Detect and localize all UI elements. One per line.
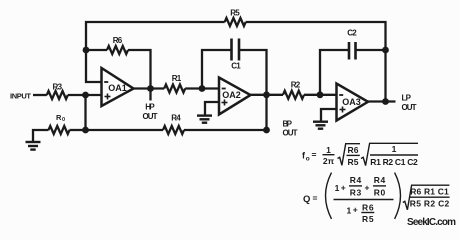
svg-text:2π: 2π [323,156,335,166]
resistor R5 [225,18,246,26]
svg-text:1: 1 [392,144,397,154]
wire: R0 left lead and drop to ground [33,130,49,141]
node: OA2 inverting input junction [199,85,206,92]
svg-text:OUT: OUT [402,103,417,112]
svg-text:OUT: OUT [283,128,298,137]
node: BP output / OA2 output [263,91,270,98]
svg-text:R4: R4 [171,114,181,123]
svg-text:OUT: OUT [143,112,158,121]
wire: OA3 non-inverting input to ground [321,109,337,121]
resistor R4 [163,126,184,134]
op-amp OA1 [102,68,134,106]
wire: R2 to OA3 inverting input [304,94,337,96]
svg-text:R2: R2 [291,80,301,89]
svg-text:SeekIC.com: SeekIC.com [407,217,456,228]
svg-text:R5: R5 [230,9,240,18]
node: R6 tap on feedback vertical [83,47,90,54]
wire: HP stub [149,89,151,101]
wire: R3 to OA1 non-inverting input [68,94,102,96]
formula f0 [302,143,418,167]
svg-text:0: 0 [62,117,65,123]
wire: input lead [33,94,47,96]
resistor R6 [107,46,128,54]
svg-text:R0: R0 [374,188,386,198]
svg-text:OA1: OA1 [108,83,127,93]
svg-text:OA2: OA2 [222,90,241,100]
resistor R2 [283,91,304,99]
node: LP output [382,98,389,105]
op-amp OA2 [219,78,251,115]
svg-text:=: = [313,193,318,203]
ground (input R0) [26,142,41,150]
wire: OA2 output to R2 [250,94,283,96]
svg-text:R1 R2 C1 C2: R1 R2 C1 C2 [370,157,418,167]
svg-text:R6: R6 [113,36,123,45]
resistor R1 [164,85,185,93]
wire: C1 left leg [202,50,231,89]
formula Q [303,173,450,224]
node: HP output [147,85,154,92]
svg-text:1: 1 [335,183,340,193]
svg-text:+: + [365,183,370,193]
wire: bottom feedback run to R4 [86,129,164,131]
svg-text:Q: Q [303,194,310,205]
resistor R3 [47,91,68,99]
svg-text:HP: HP [145,102,155,111]
svg-text:R6: R6 [362,202,374,212]
svg-text:C1: C1 [231,62,241,71]
svg-text:R5: R5 [348,157,359,167]
wire: C2 right leg [357,49,386,51]
svg-text:+: + [353,205,358,215]
svg-text:R6 R1 C1: R6 R1 C1 [410,187,449,197]
wire: R6 right lead down to OA1 output node [128,50,151,89]
svg-text:LP: LP [402,93,412,102]
wire: OA3 output / LP stub [368,100,396,102]
svg-text:1: 1 [347,205,352,215]
svg-text:=: = [312,150,317,160]
svg-text:R5 R2 C2: R5 R2 C2 [410,199,450,209]
svg-text:R3: R3 [350,188,362,198]
svg-text:+: + [341,183,346,193]
wire: R4 to BP node [184,129,267,131]
node: summing junction after R3 [82,92,89,99]
wire: C1 right leg down through OA2 output to BP node [240,50,267,130]
node: bottom-left junction [82,127,89,134]
wire: R1 to OA2 inverting input [185,87,219,89]
wire: top-right feedback run down to LP node [246,22,386,102]
wire: R0 right lead [70,129,86,131]
svg-text:R6: R6 [348,145,359,155]
ground (OA2) [197,116,212,123]
ground (OA3) [313,122,328,129]
node: OA3 inverting input junction [317,91,324,98]
svg-text:R4: R4 [374,175,386,185]
svg-text:R4: R4 [350,175,362,185]
wire: vertical from summing node to bottom feedback wire [84,95,86,130]
wire: OA1 output to R1 [133,87,164,89]
capacitor C1 [232,39,240,61]
svg-text:R5: R5 [362,214,374,224]
wire: R6 left lead [86,49,107,51]
svg-text:1: 1 [326,145,331,155]
svg-text:BP: BP [283,119,293,128]
svg-text:OA3: OA3 [342,97,361,107]
svg-text:R3: R3 [53,82,63,91]
wire: OA1 inverting input, left feedback vertical and top-left feedback run [86,22,225,82]
node: BP bottom junction [263,127,270,134]
wire: OA2 non-inverting input to ground [205,102,219,115]
svg-text:R1: R1 [172,74,182,83]
node: C2 / feedback junction on right vertical [382,47,389,54]
svg-text:o: o [306,156,310,163]
svg-text:C2: C2 [347,28,357,37]
wire: C2 left leg [320,50,348,95]
resistor R0 [49,126,70,134]
capacitor C2 [349,42,356,60]
svg-text:INPUT: INPUT [10,91,31,100]
op-amp OA3 [337,84,369,121]
